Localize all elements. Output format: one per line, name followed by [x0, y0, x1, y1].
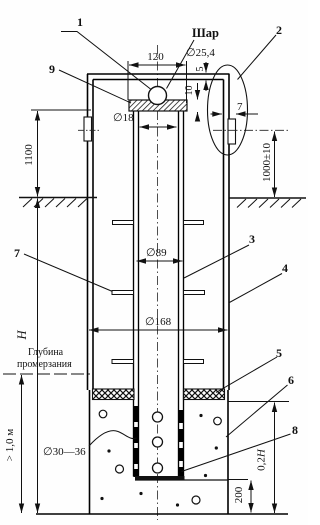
seal band right	[184, 389, 225, 400]
inner pipe left wall	[134, 111, 139, 477]
dim 5 (top wall)	[205, 62, 207, 91]
leader 6	[226, 385, 288, 437]
concrete circles and dots	[99, 410, 221, 504]
detail ellipse	[208, 65, 248, 155]
centerline	[157, 45, 159, 520]
svg-text:H: H	[15, 330, 29, 341]
ground line left	[19, 197, 97, 199]
outer tube top rim	[87, 74, 230, 80]
sleeve right wall	[228, 119, 236, 144]
svg-text:∅18: ∅18	[113, 112, 134, 124]
leader 9	[59, 70, 131, 103]
pit bottom line	[36, 513, 288, 515]
svg-text:5: 5	[195, 67, 206, 72]
leader O30-36	[89, 431, 137, 446]
ground line right	[229, 197, 306, 199]
leader 5	[216, 357, 277, 393]
svg-text:6: 6	[288, 373, 294, 387]
dim 1000+-10	[274, 132, 276, 198]
dim H	[37, 199, 39, 514]
footing top line	[135, 479, 228, 481]
dim 0,2H extension	[228, 401, 289, 403]
leader Shar	[167, 40, 195, 89]
ball	[149, 87, 167, 105]
svg-text:∅25,4: ∅25,4	[186, 47, 215, 59]
ground hatch left	[23, 199, 87, 208]
svg-text:0,2H: 0,2H	[256, 448, 268, 471]
svg-text:1000±10: 1000±10	[261, 142, 273, 182]
pipe bottom plate	[135, 476, 185, 480]
svg-text:1: 1	[77, 15, 83, 29]
anchor dashes right wall	[179, 410, 184, 477]
fin row 2 right	[184, 291, 205, 295]
fin row 1 right	[184, 221, 204, 225]
dim 0,2H	[274, 403, 276, 514]
dim >1,0 m	[21, 375, 23, 513]
right centerline dash-dot	[213, 129, 288, 131]
leader 8	[182, 434, 291, 472]
dim 200	[250, 481, 252, 513]
svg-text:2: 2	[276, 23, 282, 37]
svg-text:10: 10	[184, 86, 195, 96]
leader 2	[238, 35, 277, 80]
svg-text:4: 4	[282, 261, 288, 275]
fin row 3 right	[184, 360, 204, 364]
svg-text:200: 200	[233, 486, 245, 503]
svg-text:промерзания: промерзания	[17, 359, 72, 370]
leader 1	[61, 32, 151, 90]
svg-text:Шар: Шар	[192, 26, 219, 40]
inner pipe right wall	[179, 111, 184, 477]
leader 7	[24, 254, 113, 292]
circles inside pipe	[153, 412, 163, 422]
cap plate (hatched)	[129, 100, 187, 111]
dim 200 extension	[229, 479, 249, 481]
freeze depth line	[3, 373, 90, 375]
svg-text:8: 8	[292, 423, 298, 437]
svg-text:120: 120	[147, 51, 164, 63]
svg-text:> 1,0 м: > 1,0 м	[4, 429, 16, 461]
outer tube left wall	[88, 74, 94, 390]
seal band left (frost seal)	[93, 389, 135, 400]
svg-text:Глубина: Глубина	[28, 347, 64, 358]
sleeve left centerline	[78, 129, 101, 131]
dim 120	[128, 61, 187, 103]
svg-text:5: 5	[276, 346, 282, 360]
pit right wall	[227, 390, 229, 514]
fin row 3 left	[112, 360, 134, 364]
anchor dashes left wall	[134, 406, 139, 477]
svg-text:3: 3	[249, 232, 255, 246]
fin row 1 left	[113, 221, 134, 225]
svg-text:7: 7	[14, 246, 20, 260]
fin row 2 left	[112, 291, 134, 295]
svg-text:9: 9	[49, 62, 55, 76]
dim 1100	[31, 109, 91, 111]
leader 3	[184, 245, 249, 278]
svg-text:1100: 1100	[23, 144, 35, 166]
dim 10 (cap thickness)	[197, 83, 199, 119]
svg-text:∅89: ∅89	[146, 247, 167, 259]
sleeve left wall	[84, 117, 92, 141]
pit left wall	[89, 390, 91, 514]
svg-text:∅168: ∅168	[145, 316, 172, 328]
svg-text:∅30—36: ∅30—36	[43, 446, 86, 458]
leader 4	[229, 274, 283, 304]
svg-text:7: 7	[237, 101, 243, 113]
outer tube right wall	[224, 74, 230, 390]
ground hatch right	[237, 199, 301, 208]
